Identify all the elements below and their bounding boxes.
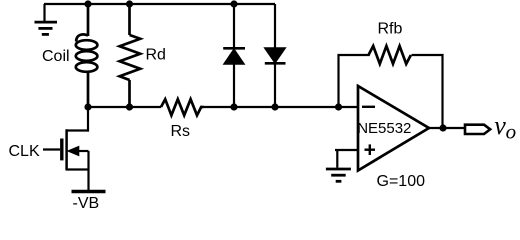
wire feedback left (339, 55, 370, 107)
node dot Rd bottom (126, 103, 133, 110)
node dot output (439, 124, 446, 131)
wire top rail right drop (274, 3, 275, 5)
node dot D1 bottom (230, 103, 237, 110)
svg-text:Coil: Coil (42, 48, 70, 65)
resistor Rfb (369, 46, 411, 64)
svg-text:CLK: CLK (9, 143, 40, 160)
supply bar -VB (72, 190, 106, 194)
node dot Rd top (126, 0, 133, 7)
svg-text:Rs: Rs (171, 123, 191, 140)
resistor Rd (120, 4, 141, 107)
output port vo (465, 125, 490, 134)
svg-text:-VB: -VB (73, 195, 100, 212)
node dot D1 top (230, 0, 237, 7)
ground GND1 (35, 4, 58, 34)
wire feedback right (412, 55, 443, 128)
svg-text:Rd: Rd (146, 47, 166, 64)
inductor Coil (76, 4, 98, 107)
wire drain (87, 107, 89, 132)
node dot coil bottom (84, 103, 91, 110)
op-amp U1 (358, 86, 429, 171)
node dot coil top (84, 0, 91, 7)
svg-text:G=100: G=100 (377, 173, 426, 190)
wire source (87, 151, 89, 191)
svg-text:NE5532: NE5532 (357, 120, 411, 137)
svg-text:Rfb: Rfb (378, 21, 403, 38)
resistor Rs (161, 99, 204, 115)
wire top rail (44, 3, 275, 5)
wire mid rail left (88, 106, 161, 108)
transistor Q1 (43, 129, 89, 170)
node dot feedback tap (335, 103, 342, 110)
wire mid rail right (204, 106, 359, 108)
diode D1 (223, 4, 245, 107)
svg-text:v: v (494, 111, 506, 140)
ground GND2 (326, 150, 351, 181)
wire op-amp plus input (335, 149, 358, 151)
wire output (427, 127, 464, 129)
node dot D2 bottom (271, 103, 278, 110)
diode D2 (265, 4, 286, 107)
svg-text:o: o (506, 120, 516, 144)
